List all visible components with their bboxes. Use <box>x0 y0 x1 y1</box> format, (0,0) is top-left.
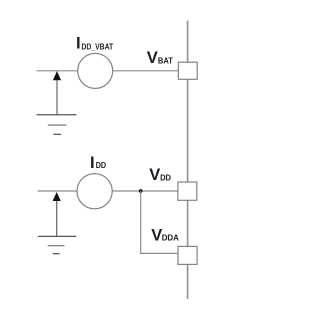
pin VDDA (pad box) <box>178 246 197 264</box>
svg-text:V: V <box>149 166 160 184</box>
svg-text:DD: DD <box>96 161 106 170</box>
arrow (current direction, top) <box>53 71 61 115</box>
bus line (right vertical net) <box>187 21 189 300</box>
wire (I_DD source to VDD pin) <box>112 190 178 192</box>
wire (left of I_DD_VBAT source) <box>37 70 79 72</box>
svg-text:I: I <box>90 154 95 172</box>
svg-text:DD_VBAT: DD_VBAT <box>81 42 113 51</box>
arrow (current direction, bottom) <box>53 192 61 236</box>
pin VDD (pad box) <box>178 182 197 200</box>
wire (I_DD_VBAT source to VBAT pin) <box>113 70 179 72</box>
label VDD <box>149 166 171 184</box>
wire (branch down to VDDA) <box>141 191 178 253</box>
ground (bottom) <box>38 236 76 253</box>
pin VBAT (pad box) <box>178 62 197 79</box>
label VBAT <box>147 49 173 67</box>
label VDDA <box>151 226 179 244</box>
svg-text:BAT: BAT <box>158 56 173 65</box>
svg-text:DD: DD <box>160 173 171 182</box>
current source I_DD_VBAT <box>78 53 113 88</box>
wire (left of I_DD source) <box>38 190 78 192</box>
svg-text:V: V <box>147 49 158 67</box>
svg-text:V: V <box>151 226 162 244</box>
label I_DD <box>90 154 106 172</box>
label I_DD_VBAT <box>76 35 113 53</box>
svg-text:DDA: DDA <box>162 234 179 243</box>
svg-text:I: I <box>76 35 81 53</box>
junction node (VDD/VDDA split) <box>139 189 143 193</box>
ground (top) <box>37 115 77 135</box>
current source I_DD <box>77 174 112 209</box>
